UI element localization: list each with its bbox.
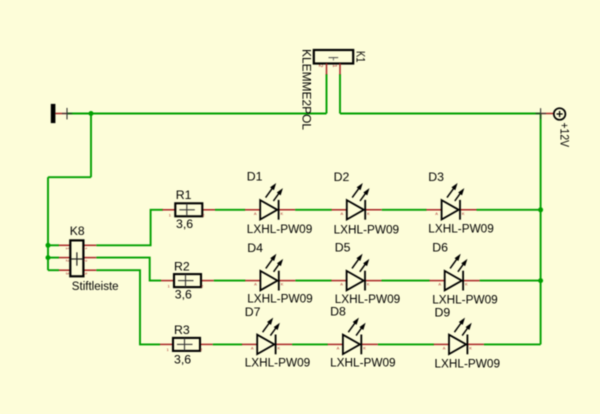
pin header K8 [59, 240, 97, 276]
svg-text:LXHL-PW09: LXHL-PW09 [247, 222, 313, 236]
node junction bus row 2 [538, 278, 543, 283]
svg-text:LXHL-PW09: LXHL-PW09 [334, 222, 400, 236]
wire D2 to D3 [382, 209, 427, 211]
LED D9 [434, 318, 484, 355]
svg-text:Stiftleiste: Stiftleiste [72, 279, 119, 293]
wire stub to K8 pin 1 [48, 244, 59, 246]
wire junction down [90, 114, 92, 178]
svg-text:1: 1 [331, 64, 337, 67]
wire K1 pin 1 to +12V [340, 113, 541, 115]
LED D5 [331, 254, 381, 291]
svg-text:D3: D3 [428, 170, 444, 184]
wire K1 pin 2 down [326, 74, 328, 114]
wire right bus [540, 114, 542, 345]
svg-text:3,6: 3,6 [175, 288, 192, 302]
node junction K8 pin 2 [46, 255, 51, 260]
svg-text:R1: R1 [176, 188, 192, 202]
wire stub to K8 pin 2 [48, 257, 59, 259]
svg-text:K8: K8 [70, 224, 85, 238]
connector K1 [314, 50, 353, 75]
svg-text:D1: D1 [247, 170, 263, 184]
svg-text:D9: D9 [435, 306, 451, 320]
LED D2 [332, 183, 382, 220]
node junction at ground branch [89, 111, 94, 116]
svg-text:LXHL-PW09: LXHL-PW09 [245, 356, 311, 370]
LED D6 [429, 254, 479, 291]
svg-text:2: 2 [317, 64, 323, 67]
svg-text:D2: D2 [334, 170, 350, 184]
wire left bus down to K8 [47, 177, 49, 270]
svg-text:LXHL-PW09: LXHL-PW09 [435, 357, 501, 371]
wire D4 to D5 [295, 280, 331, 282]
svg-text:LXHL-PW09: LXHL-PW09 [428, 222, 494, 236]
svg-text:D8: D8 [330, 305, 346, 319]
svg-text:+12V: +12V [557, 123, 571, 148]
svg-text:KLEMME2POL: KLEMME2POL [299, 49, 313, 130]
svg-text:D7: D7 [245, 305, 261, 319]
wire K8 pin 2 to R2 [96, 258, 161, 281]
ground supply symbol [51, 104, 72, 123]
wire D1 to D2 [295, 209, 332, 211]
svg-text:3,6: 3,6 [176, 217, 193, 231]
svg-text:D5: D5 [335, 241, 351, 255]
svg-text:D4: D4 [247, 241, 263, 255]
wire R3 to D7 [213, 343, 243, 345]
wire stub to K8 pin 3 [48, 269, 59, 271]
svg-text:K1: K1 [353, 51, 367, 63]
node junction K8 pin 1 [46, 243, 51, 248]
svg-text:LXHL-PW09: LXHL-PW09 [330, 356, 396, 370]
wire R2 to D4 [214, 280, 246, 282]
svg-text:R2: R2 [174, 259, 190, 273]
wire K8 pin 3 to R3 [96, 270, 160, 344]
LED D1 [245, 183, 295, 220]
svg-text:R3: R3 [174, 323, 190, 337]
LED D3 [426, 183, 476, 220]
+12V supply symbol [536, 108, 566, 120]
wire ground to K1 pin 2 [67, 113, 327, 115]
wire D7 to D8 [292, 343, 328, 345]
wire D3 to bus [477, 209, 541, 211]
svg-text:LXHL-PW09: LXHL-PW09 [432, 293, 498, 307]
wire D9 to bus [484, 343, 541, 345]
resistor R3 [160, 338, 213, 352]
wire D5 to D6 [382, 280, 430, 282]
wire jog left [48, 176, 91, 178]
node junction bus row 1 [538, 207, 543, 212]
wire K1 pin 1 down [339, 74, 341, 114]
wire D8 to D9 [378, 343, 434, 345]
resistor R2 [161, 274, 214, 288]
resistor R1 [162, 203, 215, 217]
LED D8 [328, 318, 378, 355]
svg-text:3,6: 3,6 [174, 352, 191, 366]
svg-text:LXHL-PW09: LXHL-PW09 [247, 292, 313, 306]
LED D7 [242, 318, 292, 355]
wire K8 pin 1 to R1 [96, 210, 163, 246]
LED D4 [245, 254, 295, 291]
svg-text:D6: D6 [432, 240, 448, 254]
wire R1 to D1 [215, 209, 245, 211]
wire D6 to bus [480, 280, 541, 282]
